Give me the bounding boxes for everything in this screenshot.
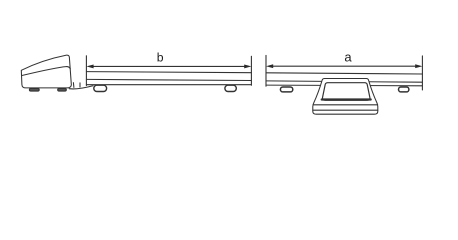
svg-text:a: a [344,50,352,65]
svg-text:b: b [157,51,164,65]
